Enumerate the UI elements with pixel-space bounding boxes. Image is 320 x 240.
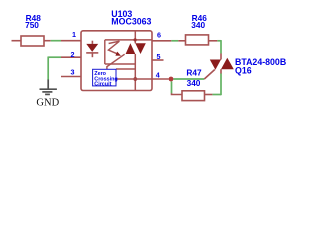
svg-text:MOC3063: MOC3063 [111, 16, 151, 26]
svg-text:750: 750 [25, 20, 39, 30]
svg-text:5: 5 [157, 52, 161, 61]
svg-text:6: 6 [157, 31, 161, 40]
svg-text:GND: GND [36, 98, 59, 109]
svg-text:Circuit: Circuit [94, 82, 111, 88]
svg-text:2: 2 [71, 50, 75, 59]
svg-text:3: 3 [71, 68, 75, 77]
svg-text:1: 1 [72, 30, 76, 39]
svg-text:Q16: Q16 [235, 65, 252, 75]
svg-text:R47: R47 [186, 68, 202, 78]
svg-text:4: 4 [156, 71, 160, 80]
svg-text:340: 340 [191, 20, 205, 30]
svg-text:340: 340 [187, 78, 201, 88]
